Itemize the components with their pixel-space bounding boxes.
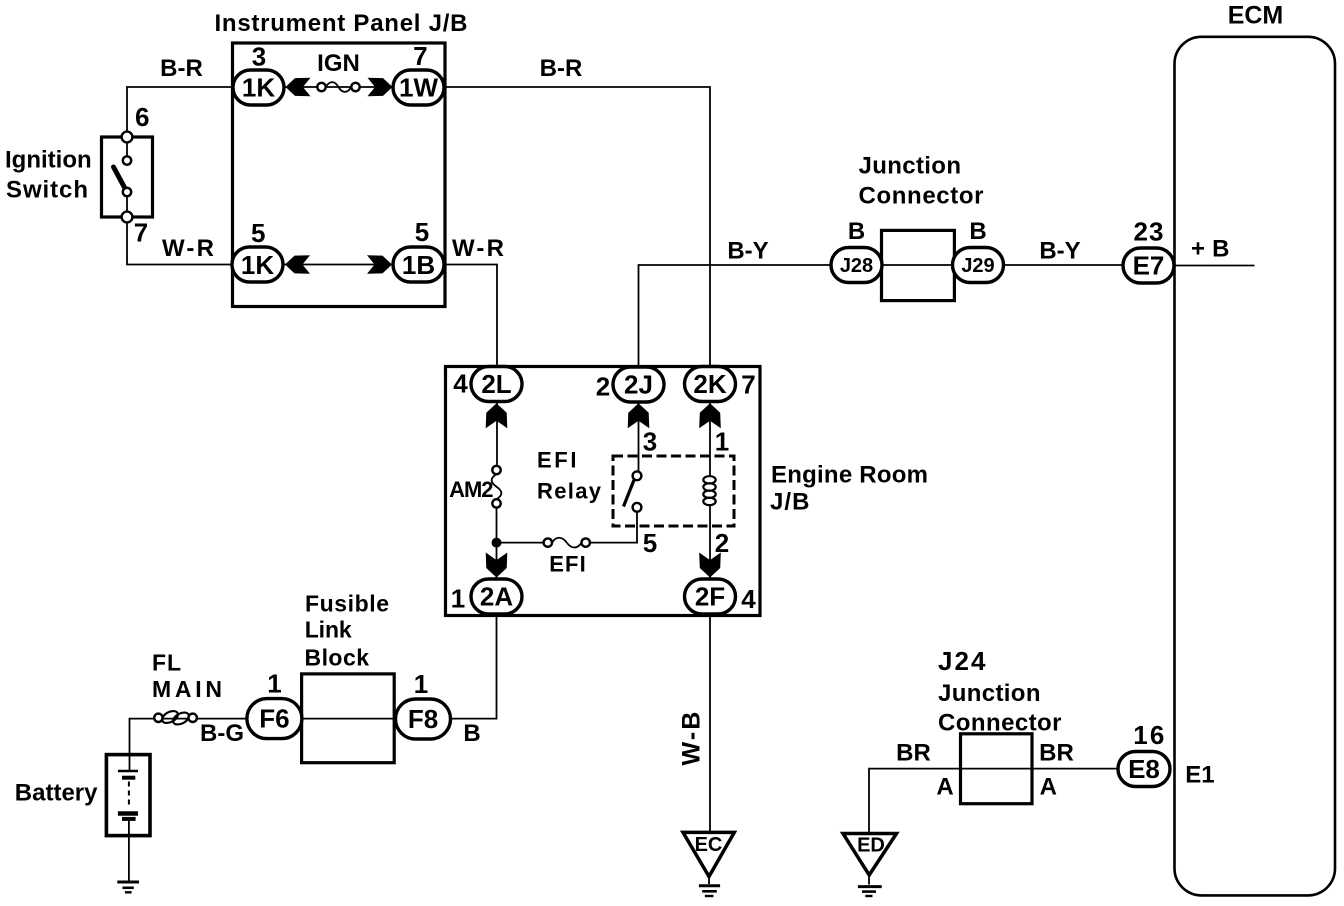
svg-text:5: 5 <box>643 528 657 558</box>
svg-text:B: B <box>463 720 480 747</box>
wire EFI fuse row to relay switch <box>497 542 544 544</box>
svg-text:J28: J28 <box>840 255 873 277</box>
relay switch upper contact <box>633 471 642 480</box>
svg-text:E7: E7 <box>1133 251 1165 281</box>
svg-text:1: 1 <box>451 584 465 614</box>
wire battery to ground <box>128 820 130 881</box>
connector 1B pin 5 <box>393 247 444 282</box>
svg-text:Instrument Panel J/B: Instrument Panel J/B <box>215 10 468 37</box>
svg-text:B-R: B-R <box>160 55 203 82</box>
connector 1K pin 5 <box>232 247 283 282</box>
ignition switch terminal 7 <box>122 212 133 223</box>
wire 2J down to relay contact <box>638 402 640 472</box>
svg-text:W-B: W-B <box>678 712 706 766</box>
svg-text:2: 2 <box>715 528 729 558</box>
svg-text:1: 1 <box>267 669 281 699</box>
wire EC apex stub <box>708 877 710 885</box>
ground under EC <box>699 886 720 896</box>
svg-text:B: B <box>969 218 986 245</box>
svg-text:2J: 2J <box>624 370 653 400</box>
arrow down into 2A <box>486 553 508 578</box>
arrow up into 2L <box>486 403 508 428</box>
svg-text:AM2: AM2 <box>449 477 493 502</box>
relay switch lever <box>624 480 635 507</box>
arrow left toward 1K <box>286 78 311 97</box>
svg-text:B-Y: B-Y <box>727 238 768 265</box>
svg-text:EFI: EFI <box>549 552 586 577</box>
fuse EFI <box>544 538 590 548</box>
fusible link FL MAIN <box>154 709 197 727</box>
svg-text:1K: 1K <box>241 250 274 280</box>
svg-text:1W: 1W <box>399 73 438 103</box>
svg-text:Fusible: Fusible <box>305 590 389 616</box>
connector J28 <box>831 248 882 283</box>
svg-text:7: 7 <box>134 218 148 248</box>
svg-text:A: A <box>1040 774 1057 801</box>
svg-text:Connector: Connector <box>938 710 1062 737</box>
wire E7 into ECM (+B) <box>1174 265 1255 267</box>
svg-text:FL: FL <box>152 650 181 676</box>
svg-text:7: 7 <box>413 41 427 71</box>
svg-text:Connector: Connector <box>859 183 984 210</box>
J24 junction connector box <box>961 734 1033 804</box>
arrow left toward lower 1K <box>285 255 310 274</box>
relay switch lower contact <box>633 503 642 512</box>
wire coil to 2F <box>709 505 711 578</box>
node junction dot <box>492 538 502 548</box>
svg-text:Engine Room: Engine Room <box>771 462 928 489</box>
svg-text:1: 1 <box>715 427 729 457</box>
svg-text:A: A <box>936 774 953 801</box>
connector F8 pin 1 <box>396 699 451 739</box>
wire through IGN fuse row <box>284 86 393 88</box>
svg-text:Junction: Junction <box>859 153 962 180</box>
svg-text:5: 5 <box>415 217 429 247</box>
svg-text:Link: Link <box>305 617 352 643</box>
svg-text:6: 6 <box>135 102 149 132</box>
arrow up into 2J <box>628 403 650 428</box>
fuse IGN <box>317 82 359 92</box>
fusible link block box <box>302 674 395 763</box>
svg-text:J29: J29 <box>961 255 994 277</box>
svg-text:2K: 2K <box>693 369 726 399</box>
svg-text:3: 3 <box>643 427 657 457</box>
battery <box>106 755 150 836</box>
svg-text:4: 4 <box>453 369 468 399</box>
junction connector box (J28/J29) <box>882 230 955 300</box>
wire B-Y from connector 2J up and right to J28 <box>639 265 832 367</box>
svg-text:Junction: Junction <box>938 680 1041 707</box>
svg-text:7: 7 <box>741 370 755 400</box>
svg-text:MAIN: MAIN <box>152 676 222 702</box>
svg-text:Relay: Relay <box>537 479 602 504</box>
wire between lower 1K and 1B <box>284 264 393 266</box>
svg-text:B-R: B-R <box>540 55 583 82</box>
svg-text:ECM: ECM <box>1228 2 1284 30</box>
wire through junction connector <box>857 264 1124 266</box>
connector E8 pin 16 <box>1118 752 1170 787</box>
ignition switch lever <box>114 167 125 188</box>
svg-text:1B: 1B <box>402 250 435 280</box>
svg-text:BR: BR <box>1039 740 1074 767</box>
svg-text:B: B <box>848 218 865 245</box>
connector 2A pin 1 <box>471 579 522 614</box>
svg-text:EC: EC <box>695 834 723 856</box>
arrow down into 2F <box>699 553 721 578</box>
svg-text:1: 1 <box>414 669 428 699</box>
wire F8 corner up to 2A <box>451 615 497 719</box>
wire 2L down through AM2 fuse to node <box>496 402 498 466</box>
svg-text:2L: 2L <box>481 369 511 399</box>
connector 2J pin 2 <box>613 367 664 402</box>
ground triangle EC <box>683 832 734 876</box>
svg-text:E1: E1 <box>1185 762 1214 789</box>
svg-text:Ignition: Ignition <box>5 147 92 174</box>
svg-text:2A: 2A <box>480 582 513 612</box>
svg-text:4: 4 <box>741 584 756 614</box>
wire battery to fusible link block and F8 to 2A <box>130 719 451 771</box>
junction block box: Instrument Panel J/B <box>233 43 446 307</box>
svg-text:IGN: IGN <box>317 50 360 77</box>
arrow right toward 1B <box>367 255 392 274</box>
ignition switch terminal 6 <box>122 132 133 143</box>
ignition switch box <box>102 137 153 217</box>
ground under battery <box>117 882 139 892</box>
svg-text:B-G: B-G <box>200 720 244 747</box>
svg-text:F6: F6 <box>259 704 289 734</box>
wire W-R ignition switch terminal 7 to connector 1K lower <box>127 222 231 264</box>
connector 1K pin 3 <box>233 70 284 105</box>
svg-text:ED: ED <box>857 835 885 857</box>
connector 2F pin 4 <box>685 579 736 614</box>
svg-text:J/B: J/B <box>770 489 810 516</box>
svg-text:Battery: Battery <box>15 780 98 807</box>
svg-text:2: 2 <box>596 372 610 402</box>
svg-text:Switch: Switch <box>6 177 88 204</box>
Engine Room J/B box <box>446 367 761 616</box>
wire fuse to relay contact <box>590 512 637 543</box>
wire 2K down to relay coil <box>709 402 711 477</box>
ground triangle ED <box>843 834 897 876</box>
wire ED apex stub <box>868 875 870 885</box>
svg-text:Block: Block <box>305 645 370 671</box>
connector 2L pin 4 <box>471 367 522 402</box>
svg-text:B-Y: B-Y <box>1039 238 1080 265</box>
connector J29 <box>953 248 1004 283</box>
ground under ED <box>858 887 882 896</box>
relay coil L1 <box>703 476 715 505</box>
wire BR from ED ground to J24 and E8 <box>869 769 1118 832</box>
svg-text:J24: J24 <box>938 646 986 676</box>
fuse AM2 <box>492 466 502 508</box>
svg-text:W-R: W-R <box>162 235 214 262</box>
arrow up into 2K <box>699 403 721 428</box>
ignition switch upper contact <box>123 156 131 164</box>
arrow right toward 1W <box>368 78 393 97</box>
wire W-R from 1B to Engine Room J/B connector 2L <box>444 265 497 367</box>
wire contact to terminal 7 <box>126 196 128 211</box>
connector E7 pin 23 <box>1123 248 1174 283</box>
svg-text:F8: F8 <box>408 704 438 734</box>
ECM box <box>1175 37 1336 896</box>
svg-text:2F: 2F <box>695 582 725 612</box>
svg-text:1K: 1K <box>242 73 275 103</box>
connector F6 pin 1 <box>247 699 302 739</box>
svg-text:E8: E8 <box>1128 754 1160 784</box>
svg-text:3: 3 <box>252 41 266 71</box>
svg-text:W-R: W-R <box>452 235 504 262</box>
svg-text:5: 5 <box>251 218 265 248</box>
wire W-B from 2F down to EC ground <box>709 615 711 832</box>
svg-text:BR: BR <box>896 740 931 767</box>
EFI relay dashed box <box>613 456 734 526</box>
wire B-R ignition switch terminal 6 to connector 1K <box>127 87 233 132</box>
ignition switch lower contact <box>123 188 131 196</box>
svg-text:EFI: EFI <box>537 448 577 473</box>
wire AM2 to node <box>496 508 498 578</box>
wire terminal 6 to contact <box>126 142 128 156</box>
connector 1W pin 7 <box>393 70 444 105</box>
wire B-R from 1W to Engine Room J/B connector 2K <box>444 87 710 367</box>
svg-text:23: 23 <box>1134 217 1164 247</box>
connector 2K pin 7 <box>685 367 736 402</box>
